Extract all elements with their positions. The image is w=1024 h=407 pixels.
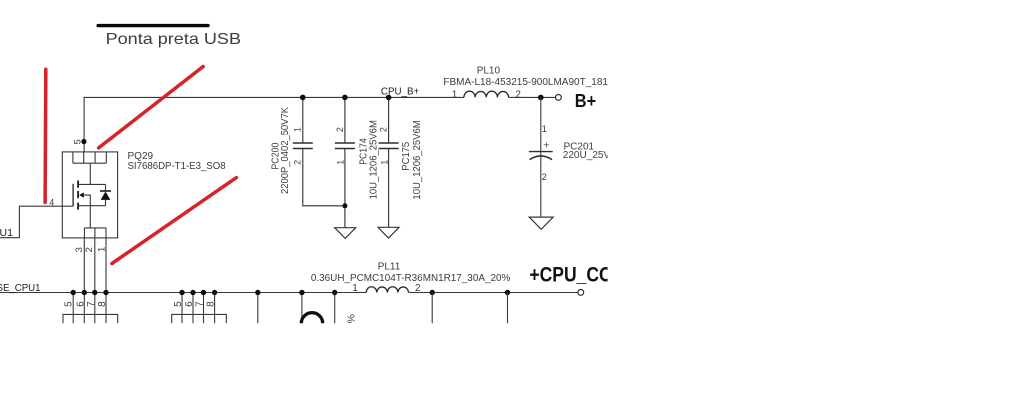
junction dot x258 [255, 290, 260, 295]
wires bus group2 [182, 293, 215, 324]
title underline bar [97, 24, 210, 27]
svg-text:SE_CPU1: SE_CPU1 [0, 282, 41, 294]
junction dots bus group2 [179, 290, 184, 295]
wires transistor pins 1-3 down to bus and below [84, 238, 106, 323]
mosfet gate bar [72, 184, 74, 207]
svg-text:2: 2 [84, 247, 95, 252]
svg-text:0.36UH_PCMC104T-R36MN1R17_30A_: 0.36UH_PCMC104T-R36MN1R17_30A_20% [311, 273, 511, 284]
mosfet drain link [79, 163, 106, 184]
svg-text:2: 2 [335, 127, 345, 132]
svg-text:SI7686DP-T1-E3_SO8: SI7686DP-T1-E3_SO8 [128, 161, 227, 172]
connector box 2 [172, 314, 227, 323]
open terminal circle B+ [556, 95, 562, 101]
svg-text:5: 5 [173, 301, 184, 307]
wire pin4 to PU1 [0, 206, 73, 238]
svg-text:PL11: PL11 [378, 261, 401, 272]
junction dots bus group1 [71, 290, 76, 295]
junction dot at B+ branch [538, 95, 544, 101]
inductor PL11 coil [366, 287, 408, 293]
body diode stubs [105, 184, 107, 205]
ground under PC201 [529, 217, 553, 229]
junction dot pin5 [81, 139, 86, 144]
svg-text:7: 7 [86, 301, 97, 307]
svg-text:1: 1 [379, 160, 389, 165]
wire pin5 vertical drop [83, 97, 85, 152]
wire stub x335 [334, 293, 336, 324]
mosfet body link [83, 195, 90, 206]
svg-text:2200P_0402_50V7K: 2200P_0402_50V7K [279, 107, 291, 194]
mosfet body arrow [79, 192, 84, 197]
capacitor PC174 [335, 97, 355, 227]
svg-text:CPU_B+: CPU_B+ [381, 86, 419, 98]
svg-text:FBMA-L18-453215-900LMA90T_1812: FBMA-L18-453215-900LMA90T_1812 [443, 77, 614, 88]
svg-text:5: 5 [64, 301, 75, 307]
junction dot top rail at PC175 [386, 95, 392, 101]
wire stub x302 [301, 293, 303, 324]
connector box 1 [63, 314, 118, 323]
svg-text:8: 8 [206, 301, 217, 307]
red annotation line 3 [112, 178, 236, 264]
clipped circle arc component [301, 313, 322, 324]
svg-text:10U_1206_25V6M: 10U_1206_25V6M [411, 120, 423, 199]
svg-text:B+: B+ [575, 90, 597, 111]
bus SE_CPU1 [0, 292, 578, 294]
wire CPU_B+ top rail [84, 96, 555, 98]
wire stub x432 [431, 293, 433, 324]
white crop overlay bottom [0, 323, 1024, 407]
svg-text:1: 1 [336, 160, 346, 165]
svg-text:6: 6 [75, 301, 86, 307]
svg-text:Ponta preta USB: Ponta preta USB [106, 31, 241, 48]
capacitor PC175 [379, 97, 399, 227]
svg-text:+: + [543, 140, 549, 152]
svg-text:1: 1 [352, 283, 358, 294]
inductor PL10 coil [464, 91, 509, 97]
svg-text:2: 2 [293, 160, 303, 165]
mosfet source link [79, 206, 106, 228]
svg-text:7: 7 [195, 301, 206, 307]
junction dot PC200/PC174 ground join [342, 203, 347, 208]
svg-text:2: 2 [415, 283, 421, 294]
svg-text:1: 1 [293, 127, 303, 132]
svg-text:8: 8 [97, 301, 108, 307]
capacitor PC201 wire bottom [540, 152, 542, 217]
junction dot x507 [505, 290, 510, 295]
junction dot top rail at PC200 [300, 95, 306, 101]
junction dot x302 [299, 290, 304, 295]
capacitor PC201 plates [529, 151, 553, 153]
junction dot top rail at PC174 [342, 95, 348, 101]
wire stub bus col1 [72, 293, 74, 324]
red annotation line 2 [99, 67, 204, 148]
mosfet channel bars [77, 181, 79, 210]
svg-text:1: 1 [452, 90, 458, 101]
body diode triangle [101, 192, 111, 200]
ground under PC175 [378, 227, 399, 238]
transistor PQ29 body box [62, 152, 117, 238]
svg-text:2: 2 [515, 90, 521, 101]
svg-text:%: % [345, 314, 357, 323]
wire stub x507 [507, 293, 509, 324]
svg-text:U1: U1 [0, 227, 13, 239]
svg-text:6: 6 [184, 301, 195, 307]
svg-text:2: 2 [542, 172, 547, 183]
capacitor PC200 [293, 97, 345, 205]
svg-text:5: 5 [73, 139, 84, 144]
capacitor PC201 wire top [540, 97, 542, 151]
svg-text:2: 2 [379, 127, 389, 132]
red annotation line 1 [43, 69, 47, 202]
wire stub x258 [257, 293, 259, 324]
ground under PC174 [335, 228, 356, 239]
open terminal circle +CPU_CORE [578, 290, 584, 296]
svg-text:1: 1 [542, 124, 547, 135]
junction dot x335 [332, 290, 337, 295]
svg-text:PL10: PL10 [477, 66, 501, 77]
white crop overlay right [608, 0, 1024, 407]
junction dot x432 [430, 290, 435, 295]
body diode cathode bar [100, 190, 111, 192]
